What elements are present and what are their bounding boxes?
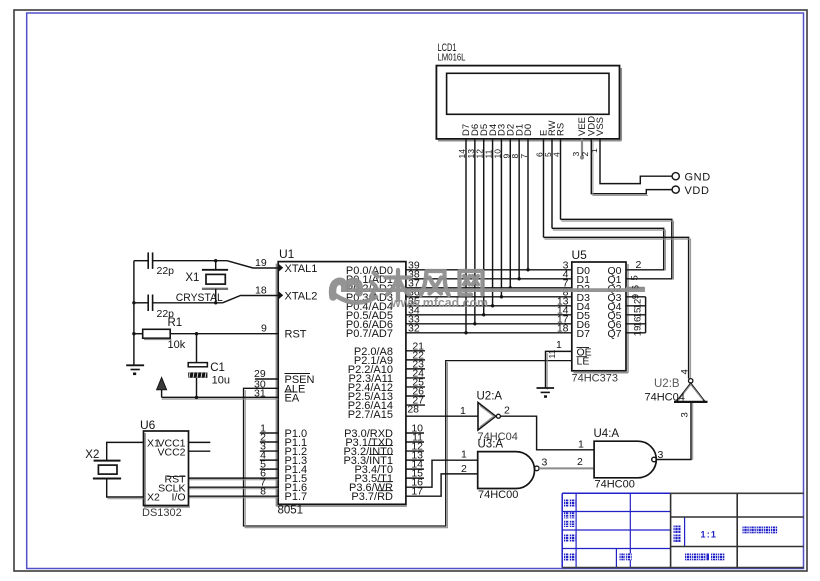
svg-text:X2: X2 bbox=[85, 449, 99, 461]
svg-text:XTAL2: XTAL2 bbox=[285, 291, 318, 303]
svg-text:18: 18 bbox=[255, 285, 267, 297]
svg-text:9: 9 bbox=[261, 323, 267, 335]
svg-text:P2.7/A15: P2.7/A15 bbox=[348, 409, 393, 421]
svg-text:1: 1 bbox=[589, 148, 599, 153]
svg-text:1: 1 bbox=[578, 439, 584, 451]
svg-text:Q7: Q7 bbox=[607, 328, 621, 340]
svg-text:2: 2 bbox=[636, 259, 642, 271]
svg-text:8051: 8051 bbox=[278, 505, 304, 517]
svg-text:2: 2 bbox=[504, 405, 510, 417]
svg-text:U4:A: U4:A bbox=[594, 428, 620, 440]
svg-text:EA: EA bbox=[285, 392, 300, 404]
svg-text:1:1: 1:1 bbox=[701, 530, 718, 540]
svg-text:1: 1 bbox=[461, 449, 467, 461]
svg-text:4: 4 bbox=[552, 152, 562, 157]
svg-text:1: 1 bbox=[556, 339, 562, 351]
svg-text:VSS: VSS bbox=[595, 117, 606, 136]
svg-text:2: 2 bbox=[461, 463, 467, 475]
svg-text:74HC373: 74HC373 bbox=[572, 373, 618, 385]
svg-text:U5: U5 bbox=[572, 248, 588, 262]
svg-text:32: 32 bbox=[408, 322, 420, 334]
svg-text:4: 4 bbox=[680, 369, 691, 374]
svg-text:28: 28 bbox=[407, 404, 419, 416]
svg-text:2: 2 bbox=[577, 456, 583, 468]
svg-text:VCC2: VCC2 bbox=[157, 446, 185, 458]
svg-text:D0: D0 bbox=[523, 124, 534, 136]
svg-text:10k: 10k bbox=[168, 339, 186, 351]
svg-text:U2:B: U2:B bbox=[654, 378, 680, 390]
svg-text:X1: X1 bbox=[185, 272, 199, 284]
svg-text:74HC00: 74HC00 bbox=[595, 478, 635, 490]
svg-text:3: 3 bbox=[680, 412, 691, 417]
svg-text:8: 8 bbox=[260, 486, 266, 498]
svg-text:19: 19 bbox=[633, 326, 644, 337]
svg-text:LM016L: LM016L bbox=[438, 52, 466, 64]
svg-text:RS: RS bbox=[556, 123, 567, 136]
svg-text:74HC04: 74HC04 bbox=[645, 392, 685, 404]
svg-text:18: 18 bbox=[557, 322, 569, 334]
svg-text:74HC00: 74HC00 bbox=[478, 489, 518, 501]
svg-text:17: 17 bbox=[411, 486, 423, 498]
svg-text:U2:A: U2:A bbox=[477, 391, 503, 403]
svg-text:12: 12 bbox=[633, 299, 644, 310]
svg-text:RST: RST bbox=[285, 329, 307, 341]
svg-text:P1.7: P1.7 bbox=[285, 491, 308, 503]
svg-text:www.mfcad.com: www.mfcad.com bbox=[390, 295, 488, 310]
svg-text:VDD: VDD bbox=[685, 185, 710, 197]
svg-text:1: 1 bbox=[460, 405, 466, 417]
svg-text:U6: U6 bbox=[140, 418, 156, 432]
svg-text:P3.7/RD: P3.7/RD bbox=[351, 491, 393, 503]
svg-text:GND: GND bbox=[685, 172, 711, 184]
svg-text:22p: 22p bbox=[157, 265, 175, 277]
svg-text:P0.7/AD7: P0.7/AD7 bbox=[346, 328, 393, 340]
svg-text:I/O: I/O bbox=[171, 492, 185, 504]
svg-text:LE: LE bbox=[577, 356, 590, 368]
svg-text:11: 11 bbox=[547, 349, 557, 358]
svg-text:16: 16 bbox=[633, 317, 644, 328]
svg-text:5: 5 bbox=[630, 275, 641, 280]
svg-text:31: 31 bbox=[254, 388, 266, 400]
svg-text:R1: R1 bbox=[168, 317, 183, 329]
svg-text:15: 15 bbox=[633, 308, 644, 319]
svg-text:19: 19 bbox=[255, 257, 267, 269]
svg-text:XTAL1: XTAL1 bbox=[285, 263, 318, 275]
svg-text:DS1302: DS1302 bbox=[142, 507, 182, 519]
svg-text:7: 7 bbox=[519, 154, 529, 159]
svg-text:3: 3 bbox=[542, 457, 548, 469]
svg-text:C1: C1 bbox=[210, 362, 225, 374]
svg-text:9: 9 bbox=[631, 294, 642, 299]
svg-text:U1: U1 bbox=[279, 247, 295, 261]
svg-text:10u: 10u bbox=[212, 375, 230, 387]
svg-text:D7: D7 bbox=[577, 328, 591, 340]
svg-text:X2: X2 bbox=[147, 492, 160, 504]
svg-text:U3:A: U3:A bbox=[478, 439, 504, 451]
